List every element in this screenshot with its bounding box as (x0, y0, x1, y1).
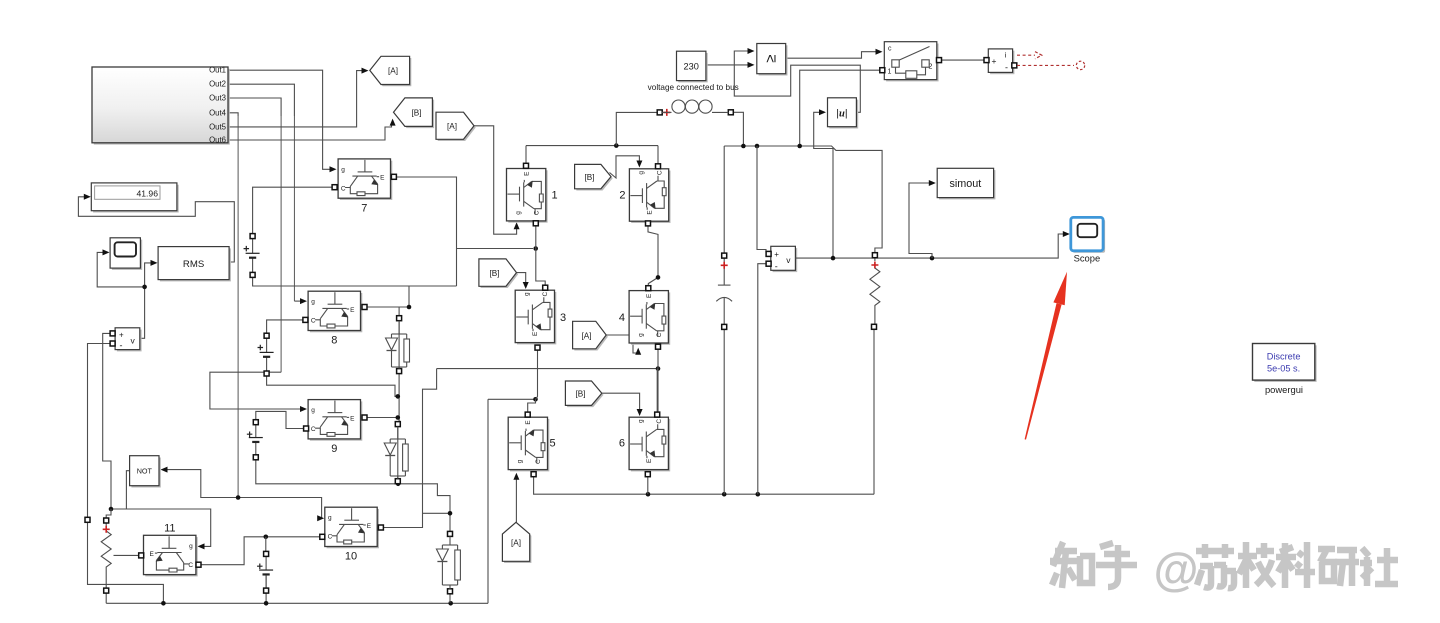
svg-text:C: C (535, 459, 542, 464)
svg-text:6: 6 (619, 438, 625, 450)
svg-text:E: E (367, 523, 372, 530)
svg-text:Out1: Out1 (209, 66, 226, 75)
svg-text:[A]: [A] (581, 331, 591, 340)
svg-text:C: C (311, 318, 316, 325)
svg-text:RMS: RMS (183, 259, 204, 270)
svg-text:g: g (517, 459, 524, 463)
svg-text:c: c (888, 46, 892, 53)
svg-text:3: 3 (560, 312, 566, 324)
svg-text:g: g (637, 333, 644, 337)
svg-text:E: E (350, 415, 355, 422)
svg-text:[A]: [A] (388, 67, 398, 76)
svg-text:E: E (524, 171, 531, 176)
svg-text:-: - (775, 262, 778, 272)
svg-text:powergui: powergui (1265, 384, 1303, 395)
svg-text:g: g (638, 419, 645, 423)
svg-text:Scope: Scope (1074, 252, 1101, 263)
svg-text:[B]: [B] (411, 108, 421, 117)
svg-text:Out5: Out5 (209, 122, 227, 131)
svg-text:C: C (656, 332, 663, 337)
svg-text:v: v (786, 255, 791, 265)
svg-text:E: E (380, 175, 385, 182)
svg-text:C: C (311, 426, 316, 433)
svg-text:C: C (188, 562, 193, 569)
svg-text:E: E (525, 420, 532, 425)
svg-text:g: g (638, 171, 645, 175)
svg-text:E: E (646, 293, 653, 298)
svg-text:voltage connected to bus: voltage connected to bus (648, 83, 739, 92)
svg-text:NOT: NOT (137, 467, 153, 476)
svg-text:7: 7 (361, 203, 367, 215)
svg-text:11: 11 (164, 523, 175, 535)
svg-text:E: E (646, 458, 653, 463)
svg-text:4: 4 (619, 312, 625, 324)
svg-text:41.96: 41.96 (136, 188, 158, 198)
svg-text:230: 230 (684, 61, 699, 71)
svg-text:C: C (534, 210, 541, 215)
svg-text:C: C (341, 185, 346, 192)
svg-text:g: g (328, 515, 332, 522)
svg-text:C: C (656, 170, 663, 175)
svg-text:g: g (311, 407, 315, 414)
svg-text:|u|: |u| (836, 107, 847, 119)
svg-text:g: g (524, 292, 531, 296)
svg-text:E: E (646, 210, 653, 215)
svg-text:1: 1 (888, 69, 892, 76)
svg-text:E: E (150, 551, 155, 558)
svg-text:+: + (119, 330, 124, 339)
svg-text:-: - (120, 341, 123, 351)
svg-text:C: C (328, 534, 333, 541)
svg-text:≥: ≥ (763, 54, 780, 62)
svg-text:9: 9 (331, 443, 337, 455)
svg-text:E: E (532, 331, 539, 336)
svg-text:Out4: Out4 (209, 108, 227, 117)
svg-text:5: 5 (550, 438, 556, 450)
svg-text:E: E (350, 307, 355, 314)
svg-text:simout: simout (949, 178, 981, 190)
svg-text:g: g (189, 543, 193, 550)
svg-text:@: @ (1154, 543, 1199, 595)
svg-text:g: g (515, 211, 522, 215)
svg-text:[B]: [B] (489, 269, 499, 278)
svg-text:10: 10 (345, 551, 357, 563)
svg-text:-: - (1005, 63, 1008, 73)
svg-text:1: 1 (552, 190, 558, 202)
svg-text:g: g (341, 166, 345, 173)
svg-text:[A]: [A] (511, 539, 521, 548)
svg-text:g: g (311, 299, 315, 306)
svg-text:[B]: [B] (584, 173, 594, 182)
svg-text:Discrete: Discrete (1267, 351, 1301, 361)
svg-text:+: + (992, 56, 997, 66)
svg-text:Out2: Out2 (209, 80, 226, 89)
svg-text:Out3: Out3 (209, 94, 226, 103)
svg-text:8: 8 (331, 335, 337, 347)
svg-text:+: + (774, 250, 779, 259)
svg-text:2: 2 (619, 190, 625, 202)
svg-text:C: C (542, 292, 549, 297)
svg-text:5e-05 s.: 5e-05 s. (1267, 363, 1300, 373)
svg-text:[B]: [B] (575, 390, 585, 399)
svg-text:[A]: [A] (447, 122, 457, 131)
svg-text:Out6: Out6 (209, 136, 226, 145)
svg-text:C: C (656, 419, 663, 424)
